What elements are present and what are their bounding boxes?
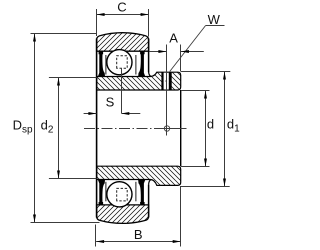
dim Dsp bottom extension [31,222,100,224]
screw axis line [166,45,168,136]
dim S line right part [121,113,140,115]
screw position circle [164,126,169,131]
seal lip line bottom-left [105,182,107,202]
dim d top extension [181,90,210,92]
dim A line right part [181,51,204,53]
cage dashed square bottom ball [117,188,128,201]
dim B line [96,241,181,243]
outer ring bottom section [97,205,149,224]
seal top-left [98,51,105,76]
dim A arrows [158,50,166,53]
cage dashed square top ball [117,56,128,69]
set screw right wall [169,72,172,89]
dim d2 arrows [57,78,60,86]
dim d2 line [58,78,60,179]
seal lip line bottom-right [135,182,137,202]
ball top [107,50,132,75]
dim S arrows [88,112,96,115]
centerline [84,128,187,130]
dim d1 line [224,72,226,187]
collar right face through bore [180,90,182,166]
dim d line [205,91,207,167]
set screw hole [164,73,169,90]
dim d bottom extension [181,166,210,168]
left face line [96,39,98,218]
seal top-right [138,51,145,76]
dim Dsp line [34,34,36,223]
W leader [170,26,206,72]
outer ring top section [97,33,149,52]
dim B left extension [95,225,97,247]
svg-text:B: B [134,227,143,242]
dim Dsp top extension [31,33,97,35]
inner ring + collar bottom section [97,166,181,185]
dim C extension left [96,9,98,36]
dim A right extension [180,45,182,72]
dim B arrows [96,240,104,243]
set screw centre dot [166,80,168,82]
dim d1 bottom extension [181,186,230,188]
W underline [206,25,225,27]
seal lip line top-right [135,55,137,75]
relief groove curve top [149,72,152,77]
dim C arrows [97,13,105,16]
dim S line left part [84,113,97,115]
svg-text:S: S [106,94,115,109]
outer ring right face lower [148,185,150,218]
dim d2 top extension [49,77,97,79]
dim d1 top extension [181,71,230,73]
screw position cross horizontal [159,128,186,130]
ball bottom [107,182,132,207]
dim d1 arrows [223,72,226,80]
seal bottom-left [98,180,105,205]
inner ring + collar top section [97,72,181,90]
dim C extension right [148,9,150,37]
svg-text:C: C [117,0,126,15]
svg-text:d: d [207,117,214,132]
seal lip line top-left [105,55,107,75]
svg-text:W: W [208,12,221,27]
ball centre extension line [121,69,123,114]
svg-text:A: A [169,30,178,45]
dim Dsp arrows [33,34,36,42]
outer ring right face upper [148,39,150,73]
dim d arrows [204,91,207,99]
dim C line [97,14,149,16]
dim B right extension [180,186,182,247]
dim d2 bottom extension [49,178,97,180]
set screw left wall [161,72,163,89]
seal bottom-right [138,180,145,205]
dim A line left part [149,51,167,53]
relief groove curve bottom [149,180,152,185]
